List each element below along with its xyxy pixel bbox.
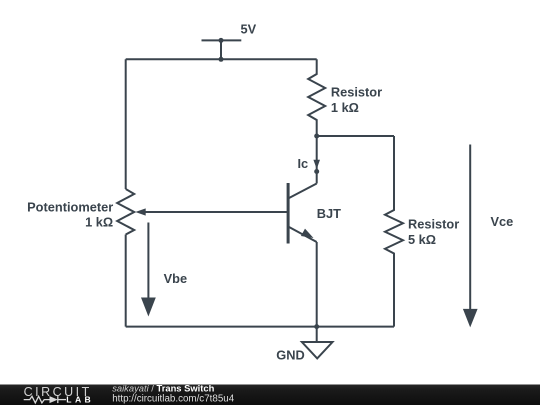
wire junction to 5k branch (317, 135, 394, 137)
svg-text:GND: GND (276, 348, 304, 363)
wire emitter vertical (316, 242, 318, 327)
current arrow Ic (298, 156, 320, 174)
svg-text:BJT: BJT (317, 206, 341, 221)
ground GND (276, 327, 332, 363)
voltage arrow Vbe (141, 223, 187, 317)
wire collector vertical (316, 136, 318, 184)
svg-text:http://circuitlab.com/c7t85u4: http://circuitlab.com/c7t85u4 (112, 393, 235, 404)
potentiometer P1 1k (27, 189, 288, 235)
transistor Q1 BJT npn (288, 183, 341, 244)
svg-text:Vbe: Vbe (164, 271, 187, 286)
svg-text:1 kΩ: 1 kΩ (85, 214, 113, 229)
svg-text:Vce: Vce (491, 214, 514, 229)
svg-text:Resistor: Resistor (408, 216, 459, 231)
wire left vertical lower (125, 235, 127, 327)
wire top horizontal (126, 58, 317, 60)
logo squiggle resistor-diode (24, 396, 66, 403)
wire left vertical upper (125, 59, 127, 189)
svg-text:5 kΩ: 5 kΩ (408, 232, 436, 247)
svg-text:Ic: Ic (298, 156, 309, 171)
wire bottom horizontal (126, 326, 394, 328)
power supply 5V (202, 22, 257, 60)
junction below R1 (314, 134, 319, 139)
svg-text:1 kΩ: 1 kΩ (331, 100, 359, 115)
svg-text:LAB: LAB (66, 395, 94, 405)
junction at emitter/bottom wire (314, 324, 319, 329)
resistor R2 5k (385, 136, 459, 327)
resistor R1 1k (308, 59, 382, 136)
svg-text:saikayati / Trans Switch: saikayati / Trans Switch (112, 382, 214, 393)
svg-text:5V: 5V (241, 22, 257, 37)
svg-text:Potentiometer: Potentiometer (27, 199, 113, 214)
junction at supply on top wire (219, 57, 224, 62)
voltage arrow Vce (463, 145, 513, 328)
svg-text:Resistor: Resistor (331, 85, 382, 100)
